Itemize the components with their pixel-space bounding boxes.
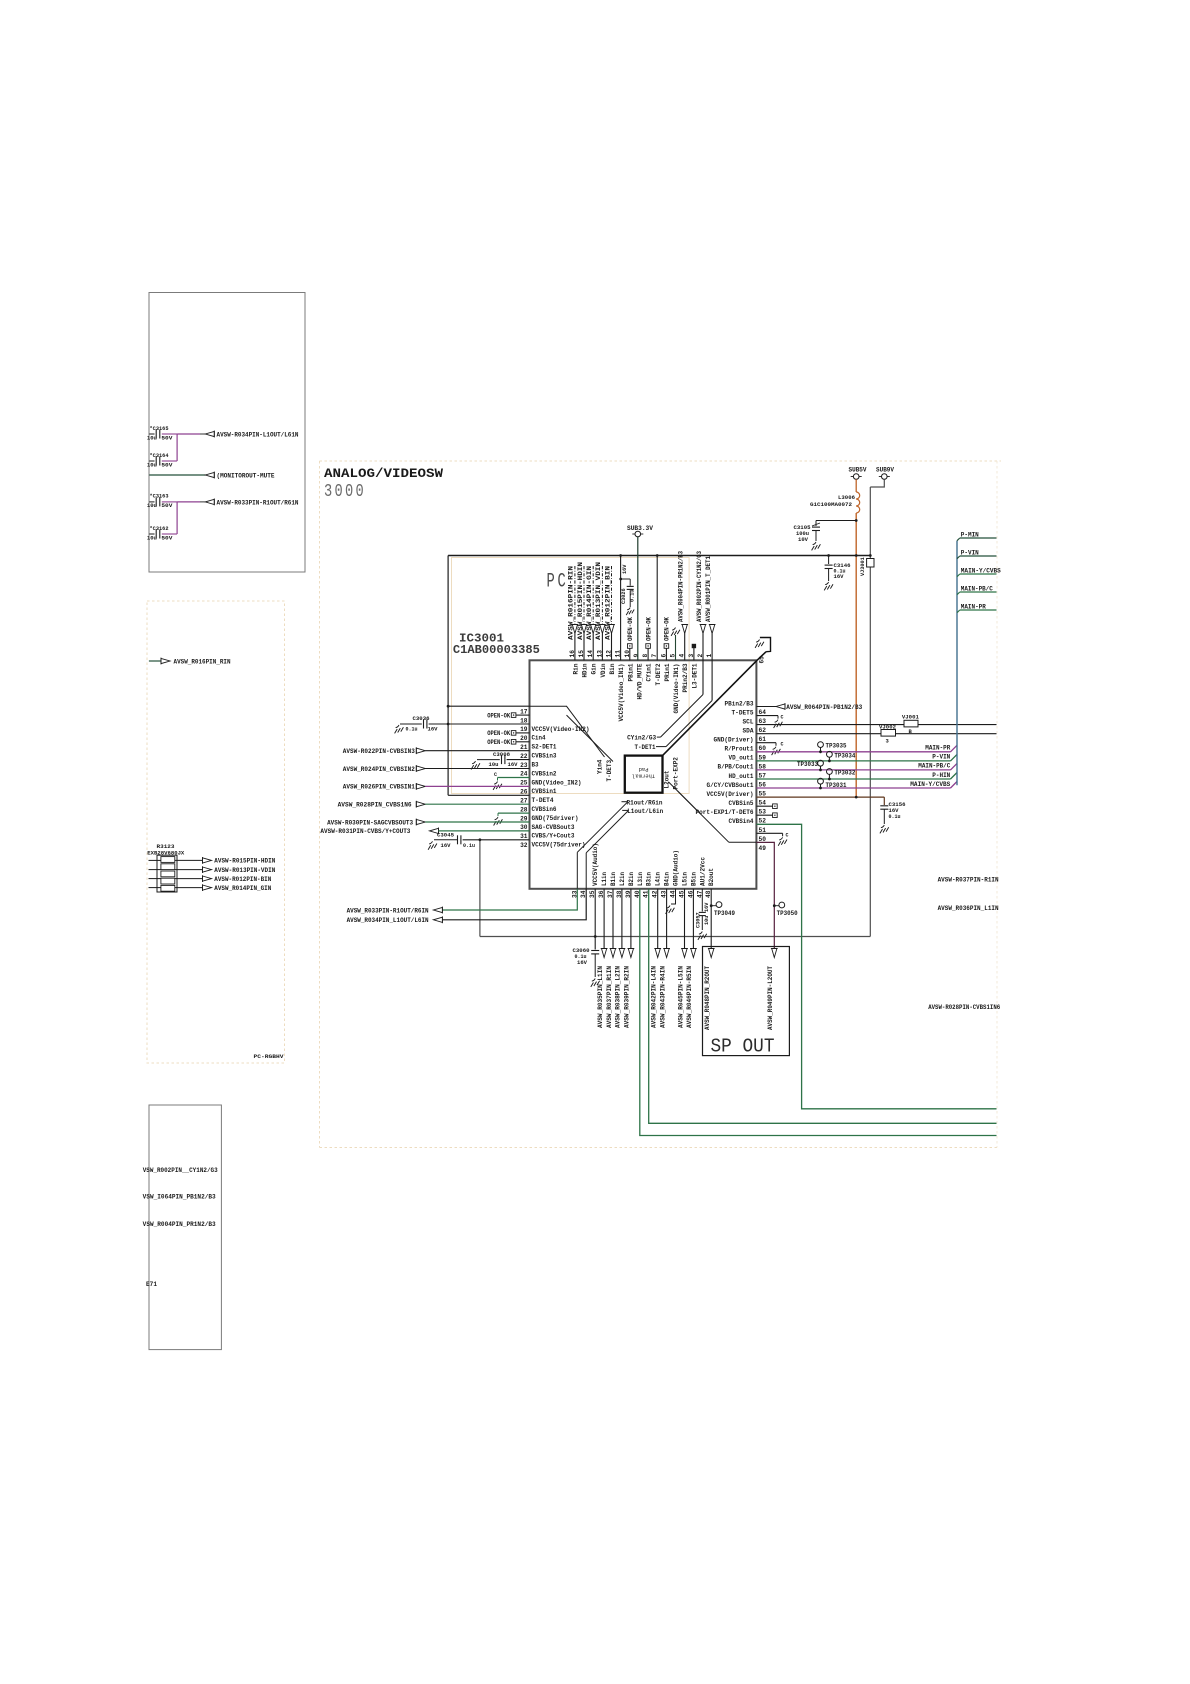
svg-text:TP3034: TP3034: [834, 752, 855, 759]
svg-text:P-MIN: P-MIN: [961, 532, 979, 539]
wire T-DET3 diagonal from pin 18: [567, 715, 614, 761]
svg-text:R1out/R6in: R1out/R6in: [627, 799, 663, 806]
svg-text:AVSW_R014PIN_GIN: AVSW_R014PIN_GIN: [214, 885, 271, 892]
svg-text:L3in: L3in: [637, 872, 644, 886]
svg-text:AVSW_R013PIN_VDIN: AVSW_R013PIN_VDIN: [595, 562, 602, 640]
arrow AVSW-R015PIN-HDIN: [203, 858, 212, 863]
svg-text:HD/VD_MUTE: HD/VD_MUTE: [636, 663, 643, 699]
svg-text:AVSW_R016PIN-RIN: AVSW_R016PIN-RIN: [568, 565, 575, 640]
pin 59 wire MAIN-PR: [756, 751, 950, 753]
pin 17 wire: [448, 705, 529, 707]
svg-text:9: 9: [633, 654, 640, 658]
svg-text:C3105: C3105: [794, 524, 812, 531]
svg-text:CVBS/Y+Cout3: CVBS/Y+Cout3: [532, 833, 575, 840]
svg-text:AVSW_R048PIN_R2OUT: AVSW_R048PIN_R2OUT: [704, 966, 711, 1030]
svg-text:MAIN-Y/CVBS: MAIN-Y/CVBS: [910, 781, 950, 788]
svg-text:AVSW_R015PIN-HDIN: AVSW_R015PIN-HDIN: [577, 562, 584, 640]
ground C3060: [592, 979, 595, 982]
pin 29 ground stub: [498, 812, 530, 814]
svg-text:50V: 50V: [161, 435, 173, 441]
svg-text:TP3033: TP3033: [797, 761, 818, 768]
svg-text:28: 28: [520, 806, 528, 813]
svg-text:ANALOG/VIDEOSW: ANALOG/VIDEOSW: [324, 466, 443, 481]
svg-text:TP3032: TP3032: [834, 770, 855, 777]
svg-text:T-DET5: T-DET5: [732, 709, 754, 716]
svg-text:B1in: B1in: [610, 872, 617, 886]
svg-text:10u: 10u: [147, 535, 157, 541]
svg-text:CVBSin3: CVBSin3: [532, 753, 557, 760]
svg-text:10u: 10u: [147, 503, 157, 509]
svg-text:B5in: B5in: [690, 872, 697, 886]
bottom pin function labels: [592, 843, 715, 886]
svg-text:C3008: C3008: [493, 751, 511, 758]
svg-text:G/CY/CVBSout1: G/CY/CVBSout1: [707, 782, 754, 789]
svg-text:HD_out1: HD_out1: [729, 773, 754, 780]
svg-text:AVSW_R036PIN_L1IN: AVSW_R036PIN_L1IN: [938, 905, 999, 912]
pin 23 capacitor C3008 10u 16V: [472, 761, 475, 764]
svg-text:B/PB/Cout1: B/PB/Cout1: [718, 764, 754, 771]
pin 36 output wire AVSW_R035PIN_L1IN: [603, 889, 605, 950]
svg-text:MAIN-PB/C: MAIN-PB/C: [918, 763, 950, 770]
svg-text:AVSW_R038PIN_L2IN: AVSW_R038PIN_L2IN: [615, 966, 622, 1028]
pin 39 output wire AVSW_R039PIN_R2IN: [630, 889, 632, 950]
svg-text:AVSW-R034PIN-L1OUT/L61N: AVSW-R034PIN-L1OUT/L61N: [217, 431, 299, 438]
svg-text:16V: 16V: [577, 960, 588, 966]
bus tap MAIN-Y/CVBS: [957, 574, 960, 577]
svg-text:S2-DET1: S2-DET1: [532, 744, 557, 751]
pin 56 wire P-HIN: [756, 778, 950, 780]
svg-text:T-DET1: T-DET1: [635, 744, 656, 751]
pin 11 wire to VCC rail: [620, 556, 622, 661]
svg-text:VDin: VDin: [600, 663, 607, 677]
svg-text:Port-EXP2: Port-EXP2: [672, 757, 679, 790]
wire L2out diagonal to pin 49: [669, 782, 729, 842]
arrow MONITOROUT-MUTE: [205, 472, 214, 477]
test point TP3034: [827, 751, 833, 757]
svg-text:AVSW_R045PIN-L5IN: AVSW_R045PIN-L5IN: [677, 966, 684, 1028]
wire SUB5V rail vertical: [855, 513, 857, 797]
arrow into SP OUT AVSW_R048PIN_R2OUT: [709, 949, 714, 958]
svg-text:G1C100MA0072: G1C100MA0072: [810, 501, 852, 508]
svg-text:17: 17: [520, 708, 528, 715]
svg-text:AVSW-R033PIN-R1OUT/R61N: AVSW-R033PIN-R1OUT/R61N: [217, 499, 299, 506]
svg-text:24: 24: [520, 771, 528, 778]
pin 55 wire MAIN-Y/CVBS: [756, 787, 950, 789]
SP OUT box: [703, 947, 790, 1056]
pin 5 ground: [672, 628, 675, 631]
pin 38 output wire AVSW_R038PIN_L2IN: [621, 889, 623, 950]
wire C3165/C3164 junction to L1OUT: [176, 434, 178, 461]
ground C3057: [699, 932, 702, 935]
svg-text:B4in: B4in: [664, 872, 671, 886]
svg-text:AVSW_R043PIN-R4IN: AVSW_R043PIN-R4IN: [659, 966, 666, 1028]
svg-text:16V: 16V: [622, 564, 628, 574]
pin 34 wire AVSW_R034PIN_L1OUT/L6IN: [442, 889, 586, 920]
svg-text:16V: 16V: [834, 574, 845, 580]
svg-text:AVSW_R028PIN_CVBS1N6: AVSW_R028PIN_CVBS1N6: [338, 802, 412, 809]
bus tap MAIN-PR: [957, 610, 960, 613]
arrow AVSW_R014PIN_GIN: [203, 885, 212, 890]
svg-text:31: 31: [520, 833, 528, 840]
svg-text:C3036: C3036: [413, 715, 430, 722]
pin 51 wire CVBSin4 to right edge: [756, 824, 996, 1109]
svg-text:SUB3.3V: SUB3.3V: [627, 525, 653, 532]
svg-text:B3in: B3in: [646, 872, 653, 886]
svg-text:AVSW-R015PIN-HDIN: AVSW-R015PIN-HDIN: [214, 858, 275, 865]
svg-text:Cin4: Cin4: [532, 735, 546, 742]
wire CYin2/G3 diagonal to pin 2: [657, 736, 661, 738]
svg-text:VJ001: VJ001: [902, 713, 920, 720]
svg-text:50: 50: [759, 836, 767, 843]
arrow AVSW-R034PIN-L1OUT/L61N: [205, 431, 214, 436]
svg-text:VCC5V(Driver): VCC5V(Driver): [707, 791, 754, 798]
svg-text:L1in: L1in: [601, 872, 608, 886]
pin 33 wire AVSW_R033PIN-R1OUT/R6IN: [442, 889, 577, 910]
svg-text:49: 49: [759, 845, 767, 852]
svg-text:AVSW_R012PIN_BIN: AVSW_R012PIN_BIN: [604, 565, 611, 640]
svg-text:TP3035: TP3035: [826, 742, 847, 749]
svg-text:29: 29: [520, 815, 528, 822]
svg-text:B2in: B2in: [628, 872, 635, 886]
svg-text:62: 62: [759, 727, 767, 734]
svg-text:AU1/2Vcc: AU1/2Vcc: [699, 857, 706, 886]
pin 40 wire L3in to right edge: [640, 889, 997, 1136]
svg-text:AVSW_R064PIN-PB1N2/B3: AVSW_R064PIN-PB1N2/B3: [786, 704, 862, 711]
svg-text:VSW_I064PIN_PB1N2/B3: VSW_I064PIN_PB1N2/B3: [143, 1194, 216, 1201]
svg-text:AVSW-R012PIN-BIN: AVSW-R012PIN-BIN: [214, 876, 271, 883]
svg-text:25: 25: [520, 780, 528, 787]
svg-text:AVSW_R001PIN_T_DET1: AVSW_R001PIN_T_DET1: [705, 556, 712, 622]
svg-text:21: 21: [520, 744, 528, 751]
pin 16 input wire AVSW_R016PIN-RIN: [574, 566, 576, 625]
svg-text:AVSW_R046PIN-R5IN: AVSW_R046PIN-R5IN: [686, 966, 693, 1028]
svg-text:AVSW_R026PIN_CVBSIN1: AVSW_R026PIN_CVBSIN1: [343, 784, 415, 791]
pin 48 wire B2out to SP OUT: [710, 889, 712, 950]
ground C3105: [813, 542, 816, 545]
svg-text:20: 20: [520, 735, 528, 742]
wire AVSW-R012PIN-BIN: [149, 878, 161, 880]
svg-text:26: 26: [520, 789, 528, 796]
svg-text:CVBSin2: CVBSin2: [532, 770, 557, 777]
svg-text:PRin2/B3: PRin2/B3: [682, 663, 689, 692]
svg-text:MAIN-PB/C: MAIN-PB/C: [961, 586, 993, 593]
svg-text:AVSW_R035PIN_L1IN: AVSW_R035PIN_L1IN: [597, 966, 604, 1028]
jumper VJ3001: [867, 559, 874, 568]
svg-text:B2out: B2out: [708, 868, 715, 886]
svg-text:27: 27: [520, 798, 528, 805]
svg-text:23: 23: [520, 762, 528, 769]
pin 50 ground stub: [756, 832, 782, 834]
main schematic sheet border: [320, 460, 1002, 462]
right pin function labels: [696, 700, 754, 825]
junction pin11-toprail: [619, 554, 622, 557]
svg-text:50V: 50V: [161, 535, 173, 541]
test point TP3035: [818, 742, 824, 748]
left pin numbers 17-32: [520, 708, 528, 849]
bus tap P-VIN: [957, 556, 960, 559]
capacitor C3026 0.1u 16V: [619, 578, 622, 581]
svg-text:R/Prout1: R/Prout1: [725, 746, 754, 753]
pin 65 flag: [760, 638, 771, 652]
capacitor C3060 0.1u 16V: [591, 950, 599, 952]
test point TP3049: [710, 904, 713, 907]
svg-text:AVSW-R030PIN-SAGCVBSOUT3: AVSW-R030PIN-SAGCVBSOUT3: [327, 819, 413, 826]
left PC-RGBHV group box frame: [147, 601, 285, 1063]
svg-text:SAG-CVBSout3: SAG-CVBSout3: [532, 824, 575, 831]
pin 44 ground stub: [671, 889, 676, 904]
wire thermal pad diagonal to pin 65 flag: [663, 660, 757, 755]
wire SUB3.3V to pin 9: [637, 537, 639, 661]
svg-text:MAIN-PR: MAIN-PR: [925, 745, 950, 752]
svg-text:CVBSin1: CVBSin1: [532, 788, 557, 795]
bottom pin numbers 33-48: [571, 890, 712, 898]
svg-text:16V: 16V: [441, 843, 452, 849]
svg-text:AVSW_R039PIN_R2IN: AVSW_R039PIN_R2IN: [624, 966, 631, 1028]
pin 14 input wire AVSW_R014PIN-GIN: [592, 566, 594, 625]
svg-text:L1out/L6in: L1out/L6in: [627, 808, 663, 815]
capacitor C3156 16V 0.1u: [880, 805, 888, 807]
svg-text:Rin: Rin: [572, 663, 579, 674]
svg-text:(MONITOROUT-MUTE: (MONITOROUT-MUTE: [217, 472, 275, 479]
svg-text:32: 32: [520, 842, 528, 849]
pin 15 input wire AVSW_R015PIN-HDIN: [583, 566, 585, 625]
pin 7 wire to VCC rail: [656, 556, 658, 661]
svg-text:L2out: L2out: [663, 770, 670, 788]
svg-text:22: 22: [520, 753, 528, 760]
wire VCC loop right segment: [869, 487, 871, 937]
svg-text:10u: 10u: [489, 762, 499, 768]
svg-text:AVSW_R024PIN_CVBSIN2: AVSW_R024PIN_CVBSIN2: [343, 766, 415, 773]
svg-text:C: C: [786, 832, 789, 838]
svg-text:AVSW_R002PIN-CY1N2/G3: AVSW_R002PIN-CY1N2/G3: [696, 551, 703, 622]
svg-text:18: 18: [520, 717, 528, 724]
svg-text:T-DET2: T-DET2: [655, 663, 662, 685]
pin 54 wire VCC5V(Driver) to C3156: [756, 796, 884, 798]
wire VCC loop bottom segment: [480, 936, 870, 938]
arrow AVSW_R016PIN_RIN: [161, 658, 170, 663]
svg-text:TP3049: TP3049: [714, 910, 735, 917]
thermal pad label: [632, 766, 655, 780]
pin 45 output wire AVSW_R045PIN-L5IN: [684, 889, 686, 950]
svg-text:54: 54: [759, 800, 767, 807]
svg-text:SDA: SDA: [743, 728, 754, 735]
wire MONITOROUT-MUTE: [149, 474, 205, 476]
svg-text:AVSW_R042PIN-L4IN: AVSW_R042PIN-L4IN: [651, 966, 658, 1028]
svg-text:SUB9V: SUB9V: [876, 467, 894, 474]
svg-text:OPEN-OK: OPEN-OK: [487, 739, 510, 746]
wire T-DET1 diagonal to pin 1: [656, 746, 666, 748]
svg-text:16V: 16V: [508, 762, 519, 768]
svg-text:T-DET4: T-DET4: [532, 797, 554, 804]
svg-text:PBin1: PBin1: [627, 663, 634, 681]
svg-text:16V: 16V: [704, 902, 710, 912]
junction SUB5V-C3105: [855, 519, 858, 522]
svg-text:SP OUT: SP OUT: [711, 1036, 775, 1058]
svg-text:PRin1: PRin1: [664, 663, 671, 681]
pin 46 output wire AVSW_R046PIN-R5IN: [692, 889, 694, 950]
top pin function labels: [572, 663, 698, 721]
wire VCC loop lower-left segment: [479, 840, 481, 937]
svg-text:C3060: C3060: [573, 947, 590, 954]
svg-text:50V: 50V: [161, 503, 173, 509]
svg-text:AVSW_R004PIN-PR1N2/B3: AVSW_R004PIN-PR1N2/B3: [678, 551, 685, 622]
pin 43 output wire AVSW_R043PIN-R4IN: [666, 889, 668, 950]
svg-text:MAIN-Y/CVBS: MAIN-Y/CVBS: [961, 568, 1001, 575]
bus tap MAIN-PB/C: [957, 592, 960, 595]
svg-text:T-DET3: T-DET3: [606, 759, 613, 781]
svg-text:P-VIN: P-VIN: [961, 550, 979, 557]
top pin numbers 16-1: [569, 650, 713, 658]
svg-text:L4in: L4in: [655, 872, 662, 886]
wire AVSW-R013PIN-VDIN: [149, 869, 161, 871]
svg-text:L3-DET1: L3-DET1: [691, 663, 698, 688]
junction loop top right: [869, 554, 872, 557]
pin 53 OPEN-OK: [756, 805, 772, 807]
top-left output box frame: [149, 293, 305, 573]
svg-text:AVSW_R049PIN-L2OUT: AVSW_R049PIN-L2OUT: [767, 966, 774, 1030]
svg-text:OPEN-OK: OPEN-OK: [627, 617, 634, 641]
svg-text:16V: 16V: [428, 727, 439, 733]
svg-text:GND(Audio): GND(Audio): [673, 850, 680, 886]
svg-text:0.1u: 0.1u: [406, 727, 418, 733]
svg-text:19: 19: [520, 726, 528, 733]
test point TP3031: [818, 778, 824, 784]
svg-text:AVSW_R014PIN-GIN: AVSW_R014PIN-GIN: [586, 565, 593, 640]
arrow AVSW-R013PIN-VDIN: [203, 867, 212, 872]
pin 52 OPEN-OK: [756, 814, 772, 816]
svg-text:0.1u: 0.1u: [630, 590, 636, 602]
junction pin32-loop: [479, 838, 482, 841]
arrow into SP OUT AVSW_R049PIN-L2OUT: [772, 949, 777, 958]
svg-text:PC: PC: [547, 571, 569, 594]
pin 58 wire P-VIN: [756, 760, 950, 762]
IC U IC3001 outline: [530, 660, 757, 889]
svg-text:Yin4: Yin4: [597, 759, 604, 774]
pin 57 wire MAIN-PB/C: [756, 769, 950, 771]
svg-text:P-VIN: P-VIN: [932, 754, 950, 761]
wire AVSW-R015PIN-HDIN: [149, 859, 161, 861]
svg-text:E71: E71: [146, 1281, 157, 1288]
svg-text:VSW_R002PIN__CY1N2/G3: VSW_R002PIN__CY1N2/G3: [143, 1167, 218, 1174]
capacitor C3146 0.1u 16V: [828, 556, 830, 565]
junction C3146-toprail: [827, 554, 830, 557]
svg-text:AVSW-R028PIN-CVBS1IN6: AVSW-R028PIN-CVBS1IN6: [928, 1004, 1000, 1011]
svg-text:SCL: SCL: [743, 718, 754, 725]
left pin function labels: [532, 726, 590, 849]
svg-text:C: C: [494, 772, 497, 778]
svg-text:CVBSin4: CVBSin4: [729, 818, 754, 825]
svg-text:OPEN-OK: OPEN-OK: [487, 730, 510, 737]
pin 35 wire VCC5V(Audio): [594, 889, 596, 950]
svg-text:TP3031: TP3031: [826, 782, 847, 789]
svg-text:C1AB00003385: C1AB00003385: [453, 643, 540, 657]
svg-text:AVSW-R037PIN-R1IN: AVSW-R037PIN-R1IN: [938, 877, 999, 884]
svg-text:VSW_R004PIN_PR1N2/B3: VSW_R004PIN_PR1N2/B3: [143, 1221, 216, 1228]
svg-text:AVSW-R031PIN-CVBS/Y+COUT3: AVSW-R031PIN-CVBS/Y+COUT3: [320, 828, 410, 835]
wire SUB9V to loop: [870, 479, 884, 487]
wire VCC loop left segment: [447, 556, 449, 796]
svg-text:3000: 3000: [324, 482, 366, 502]
svg-text:0.1u: 0.1u: [463, 843, 475, 849]
svg-text:VCC5V(Video_IN1): VCC5V(Video_IN1): [618, 664, 625, 722]
svg-text:L5in: L5in: [682, 872, 689, 886]
junction pin7-toprail: [656, 554, 659, 557]
svg-text:AVSW_R016PIN_RIN: AVSW_R016PIN_RIN: [174, 658, 231, 665]
svg-text:0.1u: 0.1u: [889, 814, 901, 820]
svg-text:HDin: HDin: [582, 663, 589, 677]
pin 41 wire B3in to right edge: [649, 889, 997, 1124]
svg-text:OPEN-OK: OPEN-OK: [487, 712, 510, 719]
svg-text:C3156: C3156: [889, 801, 906, 808]
test point TP3033: [818, 760, 824, 766]
thermal pad: [625, 756, 663, 793]
svg-text:C3045: C3045: [437, 831, 455, 838]
bus MAIN/P vertical: [956, 541, 958, 786]
svg-text:MAIN-PR: MAIN-PR: [961, 604, 986, 611]
bottom-left VSW box frame: [149, 1105, 221, 1350]
wire AVSW_R016PIN_RIN: [149, 660, 161, 662]
svg-text:OPEN-OK: OPEN-OK: [645, 617, 652, 641]
pin 42 output wire AVSW_R042PIN-L4IN: [657, 889, 659, 950]
wire VCC loop top rail: [448, 555, 870, 557]
svg-text:AVSW_R034PIN_L1OUT/L6IN: AVSW_R034PIN_L1OUT/L6IN: [347, 917, 429, 924]
svg-text:AVSW_R037PIN_R1IN: AVSW_R037PIN_R1IN: [606, 966, 613, 1028]
wire Yin4 diagonal from pin 17: [530, 705, 568, 707]
svg-text:P-HIN: P-HIN: [932, 772, 950, 779]
svg-text:VCC5V(Audio): VCC5V(Audio): [592, 843, 599, 886]
pin 32 capacitor C3045 0.1u 16V: [429, 841, 432, 844]
ground C3146: [825, 582, 828, 585]
arrow AVSW-R033PIN-R1OUT/R61N: [205, 499, 214, 504]
test point TP3032: [827, 769, 833, 775]
svg-text:OPEN-OK: OPEN-OK: [664, 617, 671, 641]
bus tap P-MIN: [957, 538, 960, 541]
svg-text:10u: 10u: [704, 916, 710, 925]
junction loop-pin17: [447, 705, 450, 708]
wire AVSW_R014PIN_GIN: [149, 887, 161, 889]
svg-text:VCC5V(75driver): VCC5V(75driver): [532, 842, 586, 849]
svg-text:CYin1: CYin1: [646, 663, 653, 681]
pin 3 net stub: [692, 644, 696, 648]
svg-text:L2in: L2in: [619, 872, 626, 886]
svg-text:GND(Video-IN1): GND(Video-IN1): [673, 664, 680, 714]
svg-text:AVSW-R013PIN-VDIN: AVSW-R013PIN-VDIN: [214, 867, 275, 874]
test point TP3050: [774, 905, 779, 907]
svg-text:C: C: [781, 715, 784, 721]
svg-text:VCC5V(Video-IN2): VCC5V(Video-IN2): [532, 726, 590, 733]
junction pin35-loop: [594, 935, 597, 938]
svg-text:TP3050: TP3050: [777, 910, 798, 917]
svg-text:CYin2/G3: CYin2/G3: [627, 734, 656, 741]
svg-text:C3057: C3057: [696, 912, 702, 928]
svg-text:AVSW-R022PIN-CVBSIN3: AVSW-R022PIN-CVBSIN3: [343, 748, 415, 755]
PC input group tan box: [452, 558, 690, 794]
right pin numbers 64-49: [759, 709, 767, 852]
pin 49 wire L2out to SP OUT: [756, 842, 774, 949]
svg-text:AVSW_R033PIN-R1OUT/R6IN: AVSW_R033PIN-R1OUT/R6IN: [347, 907, 429, 914]
svg-text:PBin2/B3: PBin2/B3: [725, 700, 754, 707]
svg-text:10V: 10V: [798, 537, 809, 543]
pin 37 output wire AVSW_R037PIN_R1IN: [612, 889, 614, 950]
wire C3163/C3162 junction to R1OUT: [176, 502, 178, 534]
svg-text:30: 30: [520, 824, 528, 831]
pin 13 input wire AVSW_R013PIN_VDIN: [601, 566, 603, 625]
svg-text:*C3162: *C3162: [150, 525, 169, 532]
junction loop-pin19: [447, 723, 450, 726]
pin 2 input wire AVSW_R002PIN-CY1N2/G3: [700, 625, 705, 634]
pin 61 wire SDA: [756, 733, 996, 735]
arrow AVSW-R012PIN-BIN: [203, 876, 212, 881]
